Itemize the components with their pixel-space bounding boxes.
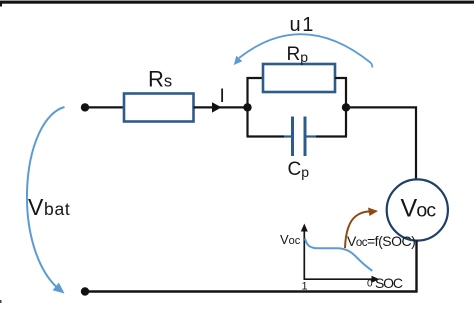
node D (bottom-left terminal) <box>81 287 89 295</box>
svg-text:Voc: Voc <box>401 195 437 223</box>
wire <box>87 106 124 108</box>
label Voc=f(SOC) <box>347 233 415 249</box>
annotation arrow Voc=f(SOC) to Voc <box>345 208 378 249</box>
label Cp <box>288 159 310 180</box>
wire <box>316 135 347 137</box>
svg-text:u1: u1 <box>290 14 315 36</box>
resistor Rs <box>124 94 194 122</box>
label Voc (graph y-axis) <box>280 232 301 247</box>
svg-text:0: 0 <box>367 279 373 290</box>
label Rp <box>287 44 309 65</box>
node C (Rp/Cp right junction) <box>342 103 350 111</box>
svg-text:I: I <box>220 86 225 107</box>
wire <box>194 106 248 108</box>
Vbat measurement arrow <box>27 107 65 294</box>
wire <box>415 240 417 291</box>
label 1 <box>302 281 308 293</box>
label Voc <box>401 195 437 223</box>
wire <box>346 107 416 180</box>
SOC discharge curve <box>305 239 372 271</box>
resistor Rp <box>263 64 335 92</box>
label u1 <box>290 14 315 36</box>
wire <box>335 78 346 137</box>
node B (Rp/Cp left junction) <box>243 103 251 111</box>
capacitor Cp <box>284 117 316 157</box>
SOC graph axes <box>301 224 380 283</box>
label Rs <box>148 67 172 92</box>
label Vbat <box>28 194 70 220</box>
u1 measurement arrow <box>234 34 373 67</box>
wire <box>248 78 264 137</box>
label I <box>220 86 225 107</box>
svg-text:SOC: SOC <box>375 275 403 291</box>
svg-text:1: 1 <box>302 281 308 293</box>
wire <box>85 290 418 292</box>
label SOC <box>375 275 403 291</box>
current arrow I <box>212 102 222 112</box>
label 0 <box>367 279 373 290</box>
voltage source Voc <box>387 179 448 240</box>
svg-text:Voc: Voc <box>280 232 301 247</box>
wire <box>247 135 285 137</box>
node A (top-left terminal) <box>81 103 89 111</box>
